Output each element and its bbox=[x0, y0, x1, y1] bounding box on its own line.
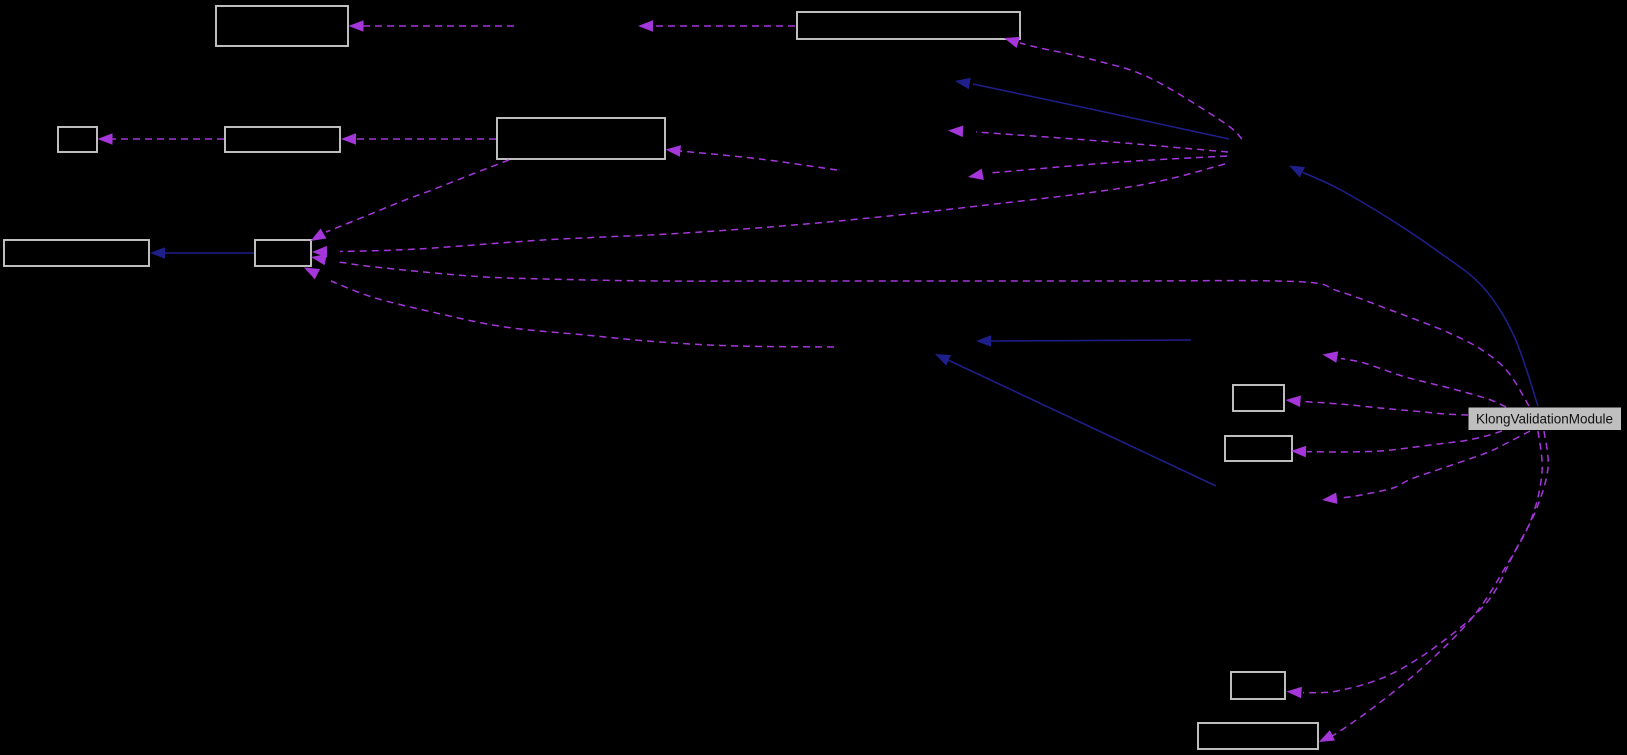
svg-text:KlongValidationModule: KlongValidationModule bbox=[1476, 412, 1613, 427]
